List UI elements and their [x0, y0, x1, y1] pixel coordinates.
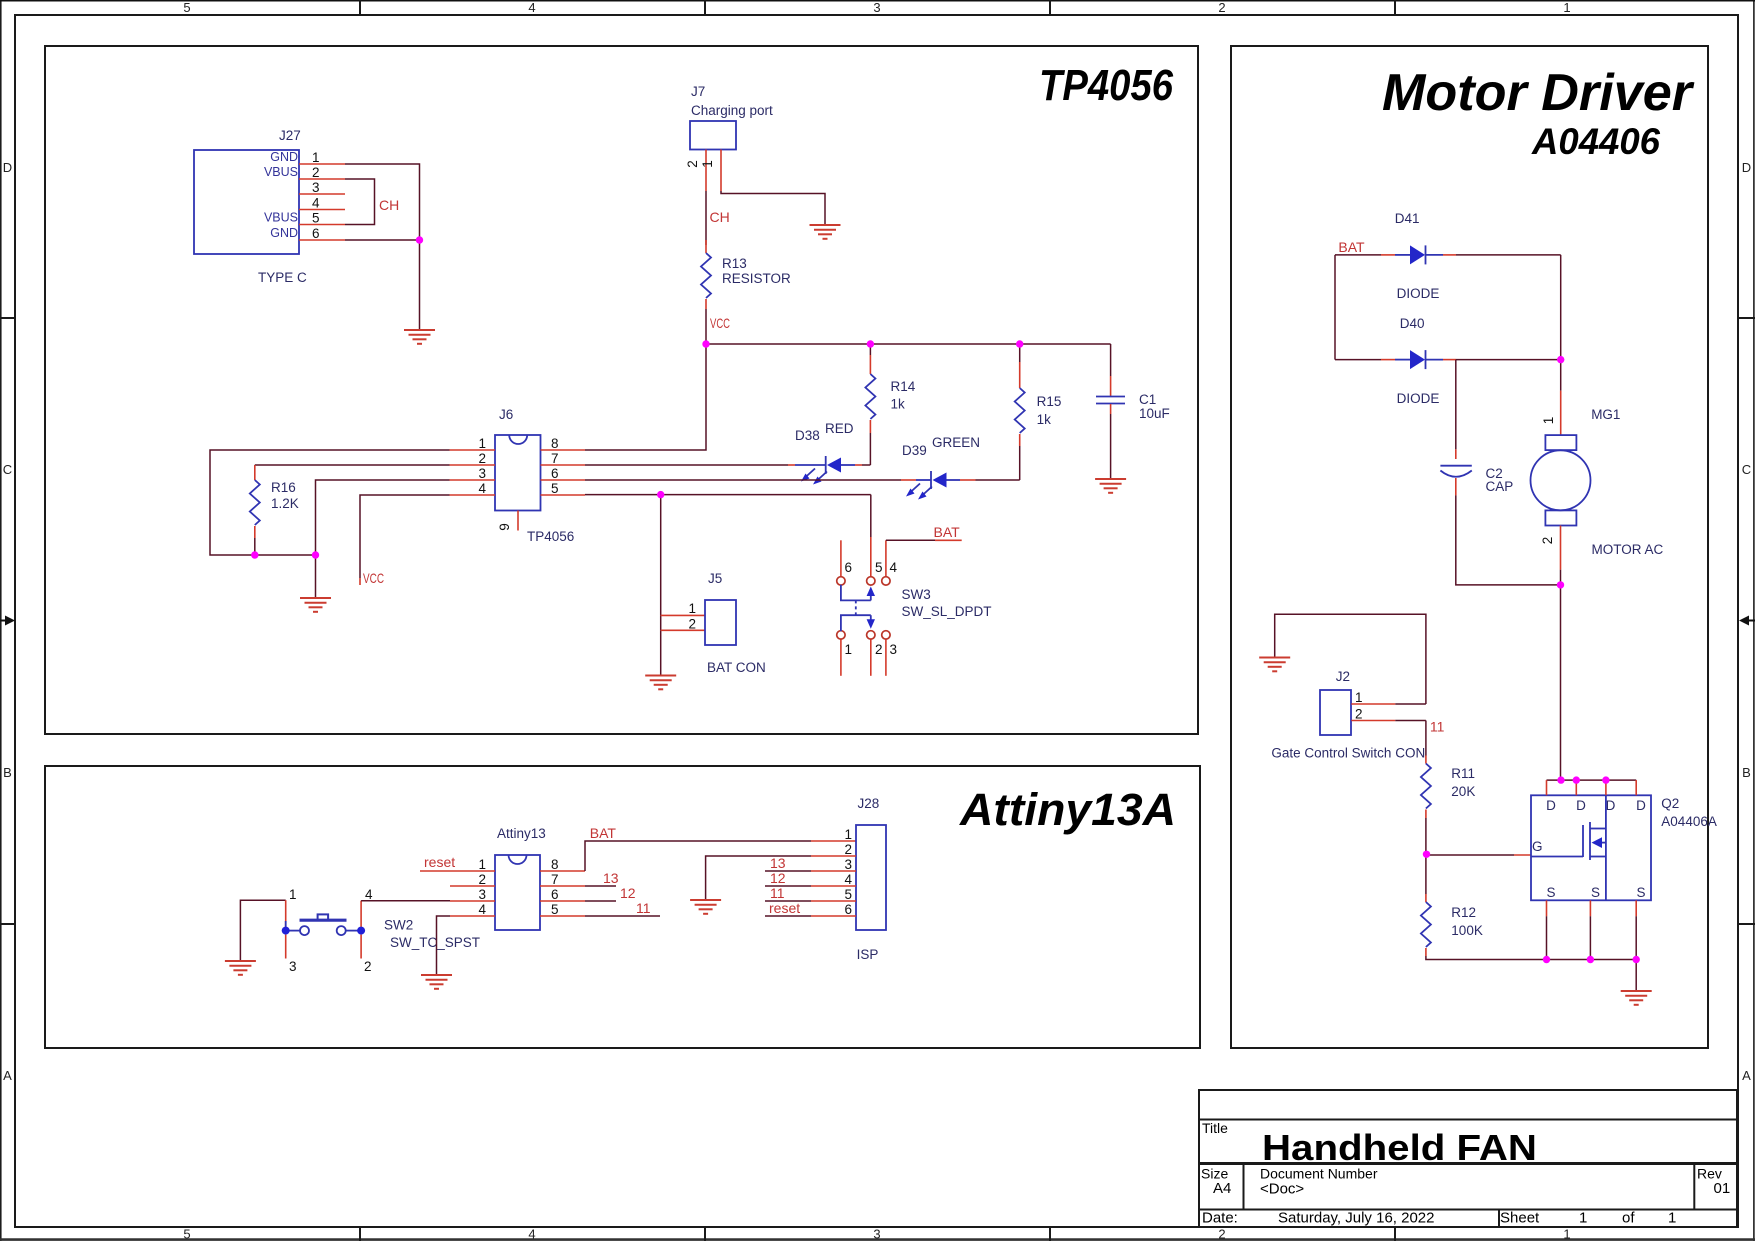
svg-text:VBUS: VBUS: [264, 165, 298, 179]
svg-text:R11: R11: [1451, 766, 1475, 781]
svg-text:CH: CH: [710, 209, 730, 225]
svg-text:3: 3: [289, 959, 297, 974]
svg-text:B: B: [3, 765, 12, 780]
svg-text:Motor Driver: Motor Driver: [1382, 64, 1695, 122]
svg-text:Gate Control Switch CON: Gate Control Switch CON: [1271, 746, 1425, 761]
svg-text:1k: 1k: [1037, 412, 1052, 427]
svg-text:2: 2: [875, 642, 883, 657]
svg-text:SW_TC_SPST: SW_TC_SPST: [390, 935, 480, 950]
svg-text:G: G: [1532, 839, 1543, 854]
svg-text:2: 2: [1540, 537, 1555, 545]
svg-text:Document Number: Document Number: [1260, 1166, 1378, 1182]
svg-text:D: D: [1576, 798, 1586, 813]
svg-text:DIODE: DIODE: [1397, 286, 1440, 301]
svg-text:1: 1: [312, 150, 320, 165]
svg-text:MG1: MG1: [1591, 407, 1620, 422]
svg-text:4: 4: [528, 1227, 535, 1241]
svg-text:Charging port: Charging port: [691, 103, 773, 118]
svg-text:BAT: BAT: [934, 524, 961, 540]
svg-text:S: S: [1636, 885, 1645, 900]
svg-text:A04406: A04406: [1531, 121, 1660, 162]
svg-text:13: 13: [770, 855, 786, 871]
svg-text:D39: D39: [902, 443, 927, 458]
svg-text:D: D: [1606, 798, 1616, 813]
svg-text:Q2: Q2: [1661, 796, 1679, 811]
svg-text:1: 1: [289, 887, 297, 902]
svg-text:Sheet: Sheet: [1500, 1210, 1540, 1227]
svg-text:J6: J6: [499, 407, 513, 422]
svg-text:1.2K: 1.2K: [271, 496, 299, 511]
svg-text:GND: GND: [270, 226, 298, 240]
svg-text:4: 4: [528, 0, 535, 15]
svg-text:Attiny13: Attiny13: [497, 826, 546, 841]
svg-text:4: 4: [312, 196, 320, 211]
svg-text:11: 11: [1430, 719, 1445, 735]
svg-text:TP4056: TP4056: [527, 529, 574, 544]
svg-text:GND: GND: [270, 150, 298, 164]
svg-text:5: 5: [551, 481, 559, 496]
svg-text:of: of: [1622, 1210, 1635, 1227]
svg-text:13: 13: [603, 870, 619, 886]
svg-text:1: 1: [844, 827, 852, 842]
svg-text:4: 4: [365, 887, 373, 902]
svg-text:S: S: [1591, 885, 1600, 900]
svg-text:J7: J7: [691, 84, 705, 99]
svg-text:C: C: [3, 462, 12, 477]
svg-text:1: 1: [1563, 0, 1570, 15]
svg-text:2: 2: [688, 617, 696, 632]
svg-text:2: 2: [478, 872, 486, 887]
svg-text:A4: A4: [1213, 1180, 1231, 1197]
svg-text:A04406A: A04406A: [1661, 814, 1717, 829]
svg-text:1: 1: [688, 601, 696, 616]
svg-text:1: 1: [845, 642, 853, 657]
svg-text:J5: J5: [708, 571, 722, 586]
svg-text:4: 4: [844, 872, 852, 887]
svg-text:CH: CH: [379, 197, 399, 213]
svg-text:RED: RED: [825, 421, 854, 436]
svg-text:MOTOR AC: MOTOR AC: [1592, 542, 1664, 557]
svg-text:11: 11: [770, 885, 785, 901]
svg-text:2: 2: [1355, 707, 1363, 722]
svg-text:<Doc>: <Doc>: [1260, 1181, 1304, 1198]
svg-text:BAT: BAT: [1338, 239, 1365, 255]
svg-text:D41: D41: [1395, 211, 1420, 226]
svg-text:8: 8: [551, 857, 559, 872]
svg-text:6: 6: [551, 887, 559, 902]
svg-text:3: 3: [478, 466, 486, 481]
svg-text:1: 1: [1563, 1227, 1570, 1241]
svg-text:D: D: [1636, 798, 1646, 813]
svg-text:R15: R15: [1037, 394, 1062, 409]
svg-text:C: C: [1742, 462, 1751, 477]
svg-text:D: D: [1742, 160, 1751, 175]
svg-text:2: 2: [364, 959, 372, 974]
svg-text:R12: R12: [1451, 905, 1476, 920]
svg-text:8: 8: [551, 436, 559, 451]
svg-text:1: 1: [1668, 1210, 1676, 1227]
svg-text:3: 3: [890, 642, 898, 657]
svg-text:reset: reset: [769, 900, 800, 916]
svg-text:4: 4: [478, 902, 486, 917]
svg-text:B: B: [1742, 765, 1751, 780]
svg-text:Handheld FAN: Handheld FAN: [1262, 1127, 1537, 1168]
svg-text:J28: J28: [858, 796, 880, 811]
svg-text:VBUS: VBUS: [264, 211, 298, 225]
svg-text:D: D: [3, 160, 12, 175]
svg-text:Attiny13A: Attiny13A: [959, 784, 1176, 835]
svg-text:reset: reset: [424, 854, 455, 870]
svg-text:2: 2: [478, 451, 486, 466]
svg-text:3: 3: [873, 0, 880, 15]
svg-text:6: 6: [312, 226, 320, 241]
svg-text:12: 12: [620, 885, 636, 901]
svg-text:3: 3: [312, 180, 320, 195]
svg-text:4: 4: [890, 560, 898, 575]
svg-text:20K: 20K: [1451, 784, 1475, 799]
svg-text:2: 2: [1218, 1227, 1225, 1241]
svg-text:DIODE: DIODE: [1397, 391, 1440, 406]
svg-text:VCC: VCC: [363, 570, 384, 586]
svg-text:5: 5: [183, 1227, 190, 1241]
svg-text:RESISTOR: RESISTOR: [722, 271, 791, 286]
svg-text:A: A: [1742, 1068, 1751, 1083]
svg-text:D40: D40: [1400, 316, 1425, 331]
svg-text:J2: J2: [1336, 669, 1350, 684]
svg-text:5: 5: [844, 887, 852, 902]
svg-text:TP4056: TP4056: [1039, 61, 1173, 110]
svg-text:5: 5: [183, 0, 190, 15]
svg-text:CAP: CAP: [1486, 479, 1514, 494]
svg-text:C1: C1: [1139, 392, 1156, 407]
svg-text:2: 2: [312, 165, 320, 180]
svg-text:5: 5: [551, 902, 559, 917]
svg-text:1: 1: [478, 436, 486, 451]
svg-text:SW3: SW3: [902, 587, 931, 602]
svg-text:TYPE C: TYPE C: [258, 270, 307, 285]
svg-text:Saturday, July 16, 2022: Saturday, July 16, 2022: [1278, 1210, 1435, 1227]
svg-text:3: 3: [844, 857, 852, 872]
svg-text:6: 6: [844, 902, 852, 917]
svg-text:R14: R14: [891, 379, 916, 394]
svg-text:R16: R16: [271, 480, 296, 495]
svg-text:GREEN: GREEN: [932, 435, 980, 450]
svg-text:12: 12: [770, 870, 786, 886]
svg-text:S: S: [1546, 885, 1555, 900]
svg-text:SW_SL_DPDT: SW_SL_DPDT: [902, 604, 992, 619]
svg-text:01: 01: [1714, 1180, 1731, 1197]
svg-text:2: 2: [685, 160, 700, 168]
svg-text:BAT CON: BAT CON: [707, 660, 766, 675]
svg-text:ISP: ISP: [857, 947, 879, 962]
svg-text:1: 1: [478, 857, 486, 872]
svg-text:1: 1: [1541, 417, 1556, 425]
svg-text:D38: D38: [795, 428, 820, 443]
svg-text:BAT: BAT: [590, 825, 617, 841]
svg-text:9: 9: [497, 523, 512, 531]
svg-text:100K: 100K: [1451, 923, 1483, 938]
svg-text:1k: 1k: [891, 397, 906, 412]
svg-text:VCC: VCC: [710, 315, 730, 331]
svg-text:4: 4: [478, 481, 486, 496]
svg-text:7: 7: [551, 451, 559, 466]
svg-text:A: A: [3, 1068, 12, 1083]
svg-text:11: 11: [636, 900, 651, 916]
svg-text:SW2: SW2: [384, 918, 413, 933]
svg-text:1: 1: [1355, 690, 1363, 705]
svg-text:5: 5: [875, 560, 883, 575]
svg-text:2: 2: [1218, 0, 1225, 15]
svg-text:R13: R13: [722, 256, 747, 271]
svg-text:10uF: 10uF: [1139, 406, 1170, 421]
svg-text:1: 1: [1579, 1210, 1587, 1227]
svg-text:5: 5: [312, 211, 320, 226]
svg-text:2: 2: [844, 842, 852, 857]
svg-text:Date:: Date:: [1202, 1210, 1238, 1227]
svg-text:6: 6: [845, 560, 853, 575]
svg-text:D: D: [1546, 798, 1556, 813]
svg-text:3: 3: [873, 1227, 880, 1241]
svg-text:J27: J27: [279, 128, 301, 143]
svg-text:1: 1: [700, 160, 715, 168]
svg-text:7: 7: [551, 872, 559, 887]
svg-text:6: 6: [551, 466, 559, 481]
svg-text:Title: Title: [1202, 1120, 1228, 1136]
svg-text:3: 3: [478, 887, 486, 902]
